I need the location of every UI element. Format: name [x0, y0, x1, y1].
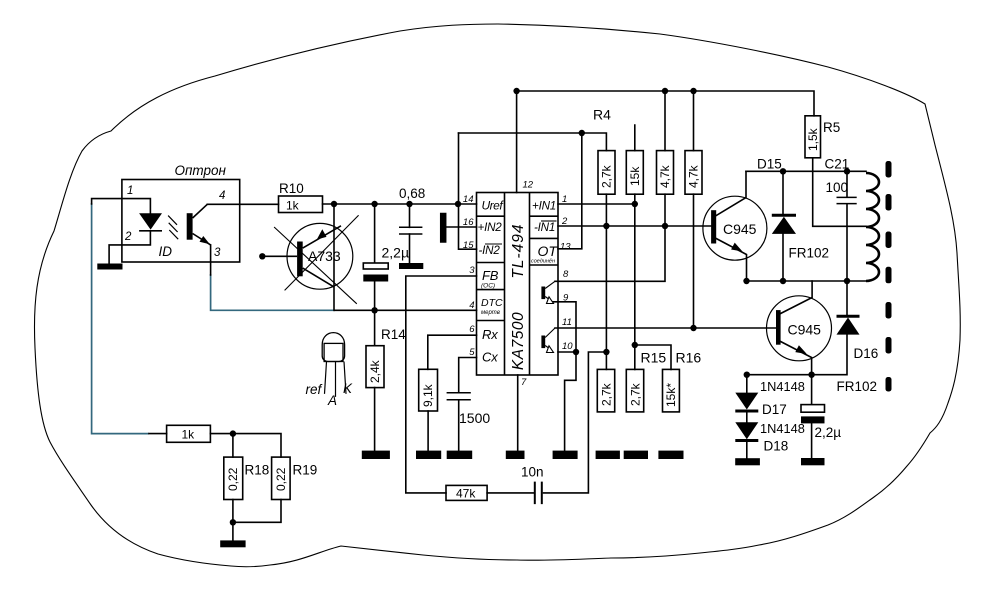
optocoupler phototransistor base plate: [187, 213, 193, 240]
optocoupler U1 box: [122, 180, 240, 263]
svg-text:47k: 47k: [456, 487, 476, 501]
ground 2.2u output: [801, 458, 825, 465]
ground emitters: [553, 451, 578, 459]
wire: Rx pin6 to 9.1k: [428, 335, 477, 369]
capacitor 10n plates: [535, 482, 542, 505]
capacitor 0.68 plates: [399, 227, 422, 234]
wire: 1k to R18/R19: [149, 434, 281, 458]
wire: 1500 bottom: [458, 400, 460, 450]
svg-text:10: 10: [562, 341, 573, 352]
wire: R14 stubs: [374, 310, 376, 450]
wire: Q3 collector up: [716, 171, 746, 215]
IC -IN1 overline: [541, 220, 557, 222]
svg-text:D17: D17: [762, 402, 787, 417]
A733 collector lead: [303, 268, 334, 287]
transistor Q4 C945 circle: [767, 296, 832, 361]
svg-text:4: 4: [219, 190, 225, 202]
optocoupler LED D: [139, 213, 162, 229]
A733 base plate: [297, 242, 303, 277]
wire: R4 bottom stub: [605, 194, 607, 226]
optocoupler photon rays: [168, 216, 178, 240]
wire: pin14 link: [459, 203, 477, 205]
svg-text:R10: R10: [279, 181, 304, 196]
resistor 47k: [446, 485, 487, 500]
svg-text:Оптрон: Оптрон: [175, 163, 227, 178]
ground R15: [624, 451, 648, 459]
wire: D15/C21 top rail: [746, 170, 866, 172]
svg-text:16: 16: [463, 217, 474, 228]
wire: R10 right to IC pin14 node: [323, 203, 459, 205]
resistor R10 1k: [279, 196, 323, 213]
svg-text:R15: R15: [641, 350, 667, 366]
svg-text:0,22: 0,22: [274, 467, 288, 491]
svg-text:2,7k: 2,7k: [599, 382, 613, 406]
transistor A733 circle: [287, 223, 353, 289]
svg-text:FR102: FR102: [789, 246, 830, 261]
resistor 2.7k lower1: [597, 369, 614, 412]
svg-text:5: 5: [469, 347, 475, 358]
svg-text:FB: FB: [482, 268, 499, 283]
ground R18 R19: [220, 540, 245, 547]
wire: D16 cathode up: [846, 281, 848, 316]
wire: FB pin3 to 47k: [406, 276, 477, 493]
svg-text:Cx: Cx: [482, 350, 498, 365]
svg-text:R16: R16: [676, 350, 702, 366]
svg-text:K: K: [343, 381, 353, 396]
wire: 2.2u output cap stubs: [811, 375, 813, 458]
resistor R5 1.5k: [805, 116, 821, 158]
wire: 2.2u cap branch: [374, 204, 376, 310]
wire: +IN1 node down to R15/R16: [634, 204, 636, 345]
svg-text:R4: R4: [593, 107, 611, 123]
transistor Q3 C945 circle: [703, 196, 767, 260]
IC -IN2 overline: [485, 243, 502, 245]
svg-text:2,7k: 2,7k: [600, 164, 614, 188]
wire: -IN1 node down: [605, 226, 607, 352]
wire: 2.7k lower stub: [605, 352, 607, 369]
svg-text:15: 15: [463, 240, 474, 251]
wire: top bus with R5: [517, 91, 814, 116]
svg-text:1,5k: 1,5k: [806, 127, 820, 151]
svg-text:6: 6: [469, 324, 475, 335]
svg-text:R19: R19: [293, 463, 318, 478]
wire: LED cathode to ground: [109, 231, 150, 264]
Q4 base plate: [776, 310, 781, 345]
svg-text:D16: D16: [854, 346, 879, 361]
svg-text:15k: 15k: [628, 166, 642, 186]
svg-text:2: 2: [561, 216, 568, 227]
ground D18: [735, 458, 760, 465]
ground 9.1k: [416, 451, 441, 459]
A733 base wire: [262, 255, 297, 257]
wire: 4.7k#2 bottom to pin11 line: [693, 194, 695, 328]
wire: emitter rail y374.7: [747, 334, 847, 374]
IC right section dividers: [530, 216, 559, 265]
IC left section dividers: [477, 216, 505, 320]
resistor 1k bottom left: [167, 425, 211, 442]
A733 emitter lead with arrow: [303, 226, 341, 248]
svg-text:12: 12: [523, 180, 534, 191]
wire: -IN2 / R4 node vertical: [459, 133, 477, 249]
svg-text:4: 4: [469, 300, 474, 311]
svg-text:C945: C945: [723, 221, 757, 237]
svg-text:DTC: DTC: [481, 297, 503, 309]
wire: 47k to 10n: [487, 492, 534, 494]
ground R14: [362, 451, 390, 459]
svg-text:мертв: мертв: [481, 310, 500, 316]
wire: pin2 -IN1 line to Q3 base: [558, 225, 711, 227]
svg-text:A: A: [327, 393, 337, 408]
svg-text:9: 9: [563, 293, 569, 304]
svg-text:7: 7: [521, 377, 527, 388]
resistor 9.1k: [419, 369, 438, 411]
svg-text:ID: ID: [159, 244, 173, 259]
svg-text:2,4k: 2,4k: [368, 359, 382, 383]
svg-text:13: 13: [560, 242, 571, 253]
diode D16 FR102: [837, 315, 860, 318]
Q3 base plate: [711, 210, 716, 243]
svg-text:Uref: Uref: [482, 199, 505, 213]
svg-text:1: 1: [127, 185, 133, 197]
svg-text:11: 11: [562, 317, 572, 328]
capacitor C21 plates: [837, 197, 857, 203]
capacitor bar at pin16: [440, 216, 447, 240]
wire: R18/R19 bottoms to ground: [233, 500, 281, 541]
svg-text:4,7k: 4,7k: [658, 164, 672, 188]
svg-text:R14: R14: [381, 327, 406, 342]
wire: pin8 line up to -IN1 line: [555, 226, 665, 281]
diode D17 1N4148: [735, 393, 758, 410]
ground R16: [658, 451, 683, 459]
IC U2 TL-494 / KA7500: [477, 193, 559, 376]
wire: node down to A733 collector and DTC line: [333, 204, 335, 310]
wire: D17 D18 chain: [746, 375, 748, 459]
ground 1500: [447, 451, 473, 459]
wire: pin11 line to Q4 base: [555, 327, 776, 329]
ground pin7: [506, 451, 525, 459]
resistor R4 2.7k: [598, 151, 615, 195]
svg-text:C945: C945: [788, 322, 822, 338]
svg-text:1N4148: 1N4148: [760, 421, 805, 436]
wire: 4.7k#1 bottom stub: [664, 194, 666, 226]
svg-text:ref: ref: [306, 382, 323, 397]
wire: R4 top line: [459, 133, 607, 151]
diode D18 1N4148: [735, 422, 758, 439]
TO-92 package outline: [322, 333, 344, 362]
svg-text:2: 2: [124, 231, 132, 243]
wire: C21 stubs: [846, 171, 848, 281]
svg-text:OT: OT: [538, 243, 559, 259]
wire: R15 stub and R16 link: [635, 345, 671, 369]
wire: R5 bottom to transformer tap: [813, 158, 866, 227]
optocoupler collector lead: [193, 204, 208, 218]
A733 cross-out X: [274, 215, 359, 304]
capacitor 2.2u polar plates: [363, 263, 388, 269]
teal wire: optocoupler pin1 to 1k divider: [92, 203, 335, 434]
svg-text:3: 3: [469, 265, 475, 276]
svg-text:2,2µ: 2,2µ: [382, 245, 410, 261]
svg-text:KA7500: KA7500: [510, 312, 527, 370]
wire: pin16 bar link: [447, 226, 477, 228]
IC output transistor QB: [541, 336, 545, 349]
wire: Cx pin5 to 1500: [459, 358, 477, 393]
IC column dividers: [505, 193, 530, 376]
resistor R18 0.22: [224, 457, 243, 499]
svg-text:10n: 10n: [521, 465, 544, 480]
svg-text:(ОС): (ОС): [481, 283, 495, 290]
svg-text:D18: D18: [764, 439, 789, 454]
svg-text:2,2µ: 2,2µ: [815, 425, 842, 440]
svg-text:2,7k: 2,7k: [628, 382, 642, 406]
wire: opto pin1 to LED anode: [92, 199, 151, 214]
ground 2.7k lower1: [596, 451, 620, 459]
wire: pin9 pin10 join: [552, 302, 576, 352]
resistor R16 15k*: [663, 369, 680, 412]
svg-text:C21: C21: [825, 157, 850, 172]
svg-text:3: 3: [214, 247, 221, 259]
wire: IC pin7 ground: [517, 375, 519, 451]
ground symbols: [97, 263, 824, 547]
wire: 0.68 cap branch: [409, 204, 411, 263]
svg-text:4,7k: 4,7k: [687, 164, 701, 188]
wire: 4.7k top stubs: [665, 91, 694, 151]
svg-text:+IN2: +IN2: [478, 221, 503, 234]
diode D15 FR102: [772, 214, 796, 217]
resistor 4.7k first: [657, 151, 674, 195]
wire: Q4 collector up: [781, 281, 813, 314]
transformer T1 winding: [866, 173, 879, 281]
resistor R14 2.4k: [366, 346, 384, 388]
svg-text:1k: 1k: [182, 428, 196, 442]
Q3 emitter arrow: [731, 243, 742, 252]
svg-text:+IN1: +IN1: [532, 200, 556, 213]
svg-text:Rx: Rx: [482, 327, 498, 342]
wire: mid rail y281: [747, 280, 867, 282]
svg-text:R5: R5: [823, 120, 840, 135]
capacitor 2.2u output polar plates: [801, 405, 825, 413]
svg-text:FR102: FR102: [837, 379, 878, 394]
svg-text:D15: D15: [757, 157, 782, 172]
transformer core dashes: [886, 161, 892, 392]
wire: emitters to ground: [565, 352, 576, 451]
resistor 15k: [626, 151, 643, 195]
svg-text:R18: R18: [245, 463, 270, 478]
ground opto LED: [97, 264, 122, 270]
wire: 15k free stub and bottom: [634, 125, 636, 204]
wire: Q3 emitter down: [716, 239, 746, 282]
wire: opto pin4 collector to R10: [207, 203, 278, 205]
teal wire: opto pin3 emitter to DTC line: [211, 274, 335, 310]
svg-text:1: 1: [562, 194, 567, 205]
svg-text:14: 14: [463, 194, 474, 205]
svg-text:-IN1: -IN1: [534, 221, 555, 234]
wire: link to 10n cap: [544, 352, 607, 493]
svg-text:соединён: соединён: [531, 259, 555, 265]
Q4 emitter arrow: [795, 345, 807, 354]
svg-text:TL-494: TL-494: [510, 223, 527, 278]
optocoupler emitter lead with arrow: [193, 234, 211, 245]
svg-text:9,1k: 9,1k: [421, 383, 435, 407]
capacitor 1500 plates: [447, 393, 471, 400]
svg-text:-IN2: -IN2: [479, 244, 501, 257]
svg-text:8: 8: [563, 269, 569, 280]
IC pin numbers and labels: [463, 180, 573, 389]
svg-text:0,22: 0,22: [226, 467, 240, 491]
svg-text:1500: 1500: [459, 410, 490, 426]
wire: pin1 +IN1 line: [558, 203, 635, 205]
IC output transistor QA: [541, 287, 545, 300]
ground 0.68: [399, 263, 423, 269]
wire: 9.1k bottom: [427, 411, 429, 451]
resistor R15 2.7k: [626, 369, 643, 412]
svg-text:15k*: 15k*: [664, 383, 678, 407]
wire: IC pin12 stub: [516, 91, 518, 193]
svg-text:100: 100: [826, 180, 849, 195]
svg-text:1N4148: 1N4148: [760, 379, 805, 394]
wire: DTC pin4 line black part: [335, 309, 477, 311]
wire: D15 vertical: [782, 171, 784, 281]
IC outer box: [477, 193, 559, 376]
TO-92 legs: [325, 362, 347, 397]
wire: R4 line to OT pin13: [558, 133, 582, 249]
resistor R19 0.22: [272, 457, 291, 499]
wire: Q4 emitter down: [781, 342, 812, 375]
svg-text:А733: А733: [308, 248, 341, 264]
svg-text:0,68: 0,68: [399, 186, 425, 201]
resistor 4.7k second: [685, 151, 702, 195]
wire: opto pin3 emitter drop: [210, 245, 212, 275]
svg-text:1k: 1k: [286, 199, 300, 213]
